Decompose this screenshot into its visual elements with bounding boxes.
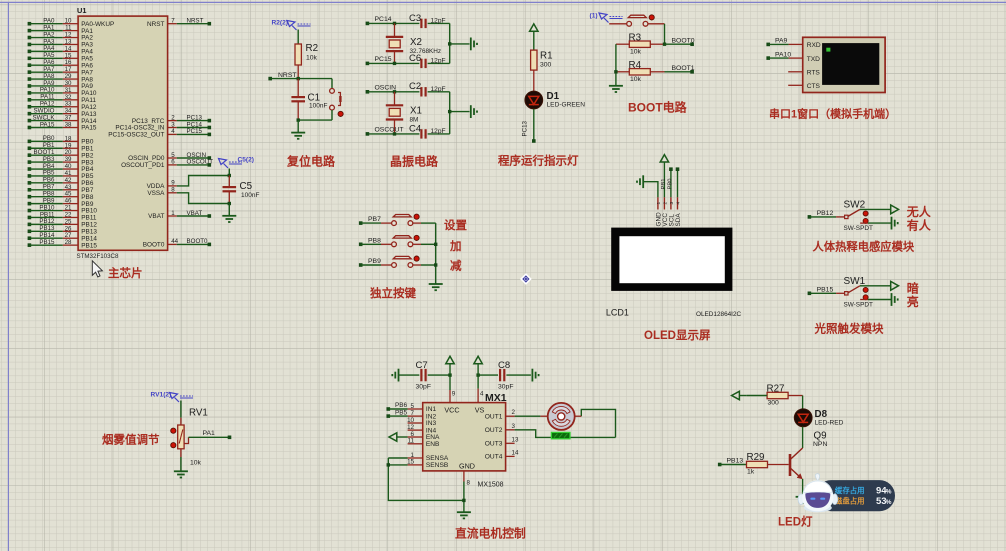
resistor R2 10k	[295, 30, 318, 79]
left pin PA5 pin 15 wire	[28, 52, 94, 62]
left pin PB7 pin 43 wire	[28, 184, 94, 194]
ground OLED (rotated left)	[642, 175, 644, 188]
capacitor C8 30pF	[478, 360, 531, 391]
svg-text:R1: R1	[540, 51, 553, 62]
svg-text:C7: C7	[416, 360, 428, 371]
wire PA9 to RXD	[766, 38, 802, 47]
svg-text:加: 加	[449, 239, 462, 253]
MX1 pin OUT1 (2)	[485, 409, 516, 420]
left pin PB11 pin 22 wire	[28, 211, 97, 221]
svg-text:PB15: PB15	[81, 242, 97, 249]
svg-text:11: 11	[408, 438, 415, 445]
svg-text:CTS: CTS	[807, 83, 821, 90]
push button btn3 wire PB9	[359, 256, 436, 267]
ground crystal (rotated)	[470, 105, 472, 118]
wire SW1 top throw to power	[860, 281, 899, 290]
resistor R27 300	[747, 383, 803, 406]
left pin PA7 pin 17 wire	[28, 66, 94, 76]
ground right of C8 (rotated)	[531, 369, 533, 382]
wire PA10 to TXD	[766, 51, 802, 60]
main chip U1 STM32F103C8 body	[77, 6, 168, 260]
BOOT button	[609, 15, 664, 26]
power arrow VS	[474, 356, 482, 377]
svg-text:8M: 8M	[410, 116, 419, 123]
right pin PC13 (2) wire	[132, 114, 211, 124]
mouse cursor	[92, 261, 102, 277]
label 暗/亮	[907, 280, 919, 309]
ground Q9 (partially hidden)	[796, 496, 810, 498]
svg-text:1: 1	[171, 210, 175, 217]
svg-text:44: 44	[171, 238, 178, 245]
svg-text:PA15: PA15	[40, 121, 55, 128]
ground crystal (rotated)	[470, 38, 472, 51]
motor driver chip MX1 MX1508 body	[423, 392, 507, 489]
svg-text:8: 8	[467, 480, 471, 487]
svg-text:12pF: 12pF	[431, 17, 446, 24]
ground MX1	[457, 511, 471, 513]
push button btn2 wire PB8	[359, 235, 436, 246]
left pin PB10 pin 21 wire	[28, 204, 98, 214]
svg-text:BOOT0: BOOT0	[672, 37, 695, 44]
svg-text:15: 15	[407, 459, 414, 466]
svg-text:R29: R29	[747, 452, 765, 463]
svg-text:PB12: PB12	[817, 210, 834, 217]
right pin PC15 (4) wire	[108, 128, 211, 138]
OLED pins GND VCC SCL SDA	[655, 197, 682, 226]
svg-text:PB7: PB7	[368, 216, 381, 223]
svg-text:10k: 10k	[190, 460, 202, 467]
MX1 pin ENA (6)	[408, 431, 440, 441]
left pin PA15 pin 38 wire	[28, 121, 97, 131]
wire SDA to PB0 terminal	[668, 167, 680, 197]
svg-text:14: 14	[512, 449, 519, 456]
MX1 pin ENB (11)	[408, 438, 440, 448]
svg-text:PB1: PB1	[661, 179, 667, 190]
left pin PB5 pin 41 wire	[28, 170, 94, 180]
left pin PB9 pin 46 wire	[28, 197, 94, 207]
svg-text:ENB: ENB	[426, 441, 440, 448]
MX1 pin OUT4 (14)	[485, 449, 519, 460]
left pin PA10 pin 31 wire	[28, 87, 97, 97]
svg-text:PA9: PA9	[775, 38, 788, 45]
svg-text:STM32F103C8: STM32F103C8	[77, 253, 120, 260]
resistor R4 10k	[616, 60, 665, 83]
svg-text:无人: 无人	[906, 204, 932, 219]
power arrow for OLED VCC	[660, 155, 668, 198]
wire SENSA SENSB loop to ground net	[387, 458, 464, 500]
svg-text:OLED12864I2C: OLED12864I2C	[696, 311, 742, 318]
wire SCL to PB1 terminal	[661, 167, 673, 197]
svg-text:R27: R27	[767, 383, 785, 394]
robot assistant icon	[798, 474, 838, 513]
svg-text:IN3: IN3	[426, 420, 437, 427]
right pin PC14 (3) wire	[115, 121, 211, 131]
svg-text:PA10: PA10	[775, 51, 791, 58]
svg-text:光照触发模块: 光照触发模块	[814, 322, 884, 336]
motor speed indicator (green box)	[551, 432, 570, 438]
svg-text:RV1(2): RV1(2)	[151, 391, 172, 398]
capacitor C1 100nF	[291, 79, 327, 121]
left pin PA1 pin 11 wire	[28, 24, 94, 34]
status widget pill	[816, 480, 895, 511]
svg-text:OUT3: OUT3	[485, 441, 503, 448]
ground reset circuit	[291, 132, 305, 134]
node OSCIN wire	[366, 85, 420, 94]
svg-text:PC14: PC14	[375, 16, 392, 23]
wire-label R2(2)	[272, 19, 311, 30]
switch SW2 SW-SPDT	[808, 199, 873, 232]
LCD1 OLED display body	[606, 228, 742, 318]
svg-text:直流电机控制: 直流电机控制	[455, 527, 526, 541]
svg-text:30pF: 30pF	[416, 384, 432, 391]
svg-text:串口1窗口（模拟手机端）: 串口1窗口（模拟手机端）	[769, 107, 896, 121]
MX1 pin OUT3 (13)	[485, 436, 519, 447]
svg-text:PB5: PB5	[395, 409, 408, 416]
svg-text:1: 1	[656, 202, 662, 205]
svg-text:38: 38	[65, 122, 72, 129]
capacitor C5 100nF	[223, 169, 260, 206]
svg-text:12pF: 12pF	[431, 128, 446, 135]
virtual terminal 串口1 body	[803, 37, 885, 92]
left pin PA4 pin 14 wire	[28, 45, 94, 55]
wire bottom of reset circuit	[297, 118, 333, 132]
wire RV1 bottom to ground	[180, 449, 182, 471]
left pin PB12 pin 25 wire	[28, 218, 98, 228]
right pin VSSA (8) wire	[147, 187, 229, 204]
svg-text:6: 6	[171, 159, 175, 166]
svg-text:10: 10	[407, 417, 414, 424]
node NRST wire	[268, 72, 332, 81]
svg-text:X1: X1	[410, 105, 422, 116]
svg-text:减: 减	[450, 259, 462, 273]
svg-text:PC15: PC15	[375, 56, 392, 63]
right pin NRST (7) wire	[147, 18, 211, 28]
right pin VBAT (1) wire	[148, 210, 211, 220]
svg-text:300: 300	[540, 62, 552, 69]
svg-text:C3: C3	[409, 13, 421, 24]
svg-text:NRST: NRST	[187, 18, 204, 25]
svg-text:烟雾值调节: 烟雾值调节	[102, 433, 160, 447]
svg-text:12pF: 12pF	[431, 86, 446, 93]
resistor R3 10k	[616, 32, 665, 55]
svg-text:PB6: PB6	[395, 402, 408, 409]
left pin PA3 pin 13 wire	[28, 38, 94, 48]
svg-text:TXD: TXD	[807, 56, 820, 63]
svg-text:LED-RED: LED-RED	[815, 419, 844, 426]
svg-text:C2: C2	[409, 81, 421, 92]
wire PB5 to IN2	[387, 409, 408, 418]
LED D1 LED-GREEN	[525, 91, 585, 109]
svg-text:SW-SPDT: SW-SPDT	[844, 225, 873, 232]
svg-text:OSCOUT_PD1: OSCOUT_PD1	[121, 162, 165, 169]
wire right side of crystal	[448, 23, 470, 63]
svg-text:VSSA: VSSA	[147, 190, 165, 197]
svg-text:SW-SPDT: SW-SPDT	[844, 302, 873, 309]
svg-text:VBAT: VBAT	[187, 210, 203, 217]
svg-text:NRST: NRST	[147, 21, 164, 28]
push button btn1 wire PB7	[359, 214, 436, 225]
svg-text:GND: GND	[459, 461, 475, 470]
left pin PB8 pin 45 wire	[28, 191, 94, 201]
svg-text:NRST: NRST	[278, 72, 297, 79]
svg-text:12pF: 12pF	[431, 57, 446, 64]
ground buttons	[429, 283, 443, 285]
resistor R1 300	[531, 50, 553, 91]
wire motor right loop	[581, 409, 615, 437]
svg-text:OSCOUT: OSCOUT	[375, 127, 404, 134]
svg-text:5: 5	[411, 403, 415, 410]
svg-text:U1: U1	[77, 6, 86, 15]
svg-text:VS: VS	[475, 406, 485, 415]
MX1 pin SENSA (1)	[408, 452, 449, 462]
svg-text:3: 3	[669, 202, 675, 205]
svg-text:C8: C8	[498, 360, 510, 371]
svg-text:LED-GREEN: LED-GREEN	[547, 102, 586, 109]
wire R27 to D8	[802, 396, 804, 409]
svg-text:10k: 10k	[630, 76, 642, 83]
svg-text:SDA: SDA	[675, 213, 682, 227]
svg-text:100nF: 100nF	[309, 103, 327, 110]
svg-text:3: 3	[512, 423, 516, 430]
left pin PA9 pin 30 wire	[28, 80, 94, 90]
svg-text:4: 4	[171, 128, 175, 135]
svg-text:OSCOUT: OSCOUT	[187, 159, 214, 166]
ground RV1	[174, 470, 188, 472]
svg-text:IN1: IN1	[426, 406, 437, 413]
node PC15 wire	[366, 56, 420, 65]
svg-text:4: 4	[480, 391, 484, 398]
svg-text:R3: R3	[629, 32, 642, 43]
svg-text:OUT2: OUT2	[485, 427, 503, 434]
motor (DC motor)	[540, 403, 581, 430]
svg-text:VCC: VCC	[444, 406, 459, 415]
svg-text:PC15: PC15	[187, 128, 203, 135]
MX1 pin OUT2 (3)	[485, 423, 516, 434]
svg-text:缓存占用: 缓存占用	[834, 486, 865, 495]
svg-text:主芯片: 主芯片	[108, 266, 143, 280]
CTS pin stub	[788, 84, 803, 86]
left pin PB4 pin 40 wire	[28, 163, 94, 173]
left pin PB13 pin 26 wire	[28, 225, 98, 235]
svg-text:4: 4	[675, 202, 681, 205]
svg-text:BOOT电路: BOOT电路	[628, 100, 688, 115]
svg-text:8: 8	[171, 187, 175, 194]
svg-text:D1: D1	[547, 91, 560, 102]
svg-text:2: 2	[512, 409, 516, 416]
node BOOT1 wire	[665, 65, 695, 74]
left pin PA6 pin 16 wire	[28, 59, 94, 69]
svg-text:BOOT0: BOOT0	[187, 238, 209, 245]
input arrow on ENA	[389, 433, 408, 441]
svg-text:RV1: RV1	[189, 408, 208, 419]
capacitor C2 12pF	[409, 81, 450, 96]
MX1 pin IN4 (12)	[407, 424, 436, 434]
MX1 GND pin 8 wire to ground	[462, 471, 470, 512]
svg-text:RTS: RTS	[807, 70, 821, 77]
svg-text:RXD: RXD	[807, 42, 821, 49]
svg-text:亮: 亮	[907, 294, 919, 309]
svg-text:PB0: PB0	[668, 179, 674, 190]
right pin OSCOUT (6) wire	[121, 159, 213, 169]
svg-text:2: 2	[662, 202, 668, 205]
svg-text:OUT4: OUT4	[485, 454, 503, 461]
left pin PA8 pin 29 wire	[28, 73, 94, 83]
left pin PB15 pin 28 wire	[28, 239, 98, 249]
wire-label (1)	[590, 12, 623, 22]
right pin OSCIN (5) wire	[128, 152, 211, 162]
left pin PB1 pin 19 wire	[28, 142, 94, 152]
svg-text:PB8: PB8	[368, 237, 381, 244]
wire RV1 wiper to PA1 terminal	[184, 430, 231, 443]
svg-text:MX1508: MX1508	[478, 482, 504, 489]
capacitor C3 12pF	[409, 13, 450, 28]
svg-text:X2: X2	[410, 37, 422, 48]
svg-text:100nF: 100nF	[241, 192, 259, 199]
svg-text:设置: 设置	[444, 218, 467, 232]
svg-text:C5(2): C5(2)	[238, 156, 255, 163]
left pin PA0 pin 10 wire	[28, 18, 115, 28]
svg-text:复位电路: 复位电路	[286, 154, 336, 169]
MX1 pin IN2 (7)	[408, 410, 437, 420]
capacitor C6 12pF	[409, 53, 450, 68]
svg-text:10k: 10k	[630, 48, 642, 55]
power arrow for D1	[530, 24, 538, 50]
svg-text:LED灯: LED灯	[778, 515, 813, 529]
svg-text:1k: 1k	[747, 469, 755, 476]
svg-text:磁盘占用: 磁盘占用	[835, 497, 865, 506]
wire OUT1 to motor	[515, 415, 541, 417]
reset button	[330, 79, 344, 121]
crystal X1 8M	[386, 92, 422, 134]
svg-text:PC13: PC13	[521, 120, 528, 136]
RTS pin stub	[788, 71, 803, 73]
svg-text:PB9: PB9	[368, 258, 381, 265]
svg-text:28: 28	[65, 239, 72, 246]
svg-text:PA15: PA15	[81, 125, 97, 132]
ground below C5	[222, 204, 236, 223]
left pin PA2 pin 12 wire	[28, 31, 94, 41]
svg-text:R2(2): R2(2)	[272, 19, 289, 26]
left pin BOOT1 pin 20 wire	[28, 149, 94, 159]
svg-text:30pF: 30pF	[498, 384, 514, 391]
svg-text:%: %	[886, 499, 892, 506]
wire R3/R4 left to ground	[614, 44, 617, 85]
svg-text:7: 7	[171, 18, 175, 25]
svg-text:13: 13	[512, 436, 519, 443]
svg-text:OUT1: OUT1	[485, 413, 503, 420]
wire buttons common to ground	[434, 223, 437, 284]
wire D1 to PC13 terminal	[521, 109, 535, 143]
transistor Q9 NPN	[790, 431, 827, 479]
wire D8 to Q9 collector	[802, 427, 804, 448]
svg-text:10k: 10k	[306, 55, 318, 62]
svg-text:PB13: PB13	[727, 458, 744, 465]
origin marker (blue diamond)	[521, 274, 531, 284]
input arrow to R27	[732, 391, 747, 399]
wire GND pin to ground (left)	[644, 182, 658, 198]
svg-text:VBAT: VBAT	[148, 213, 164, 220]
svg-text:人体热释电感应模块: 人体热释电感应模块	[813, 240, 915, 254]
svg-text:BOOT0: BOOT0	[143, 242, 165, 249]
svg-text:(1): (1)	[590, 12, 598, 19]
svg-text:OLED显示屏: OLED显示屏	[644, 329, 711, 342]
left pin PB6 pin 42 wire	[28, 177, 94, 187]
node PC14 wire	[366, 16, 420, 25]
svg-text:MX1: MX1	[485, 392, 507, 404]
left pin PA11 pin 32 wire	[28, 94, 97, 104]
MX1 pin IN1 (5)	[408, 403, 437, 413]
MX1 pin IN3 (10)	[407, 417, 436, 427]
svg-text:BOOT1: BOOT1	[672, 65, 695, 72]
left pin PB14 pin 27 wire	[28, 232, 98, 242]
wire VCC pin 9	[450, 375, 456, 403]
wire SW2 bottom throw to ground	[860, 217, 898, 230]
wire SW1 bottom throw to ground	[860, 293, 898, 306]
right pin VDDA (9) wire	[147, 176, 230, 191]
label 无人/有人	[906, 204, 932, 233]
svg-text:C6: C6	[409, 53, 421, 64]
right pin BOOT0 (44) wire	[143, 238, 211, 248]
wire right side of crystal	[448, 92, 470, 134]
wire SW2 top throw to power	[860, 205, 899, 214]
MX1 pin SENSB (15)	[407, 459, 449, 469]
svg-text:%: %	[886, 489, 892, 496]
svg-text:R2: R2	[306, 43, 319, 54]
svg-text:300: 300	[768, 400, 780, 407]
svg-text:PA1: PA1	[203, 430, 216, 437]
svg-text:LCD1: LCD1	[606, 308, 629, 318]
left pin SWDIO pin 34 wire	[28, 107, 97, 117]
svg-text:C4: C4	[409, 123, 421, 134]
ground BOOT circuit	[609, 85, 623, 87]
left pin PA12 pin 33 wire	[28, 101, 97, 111]
wire OUT2 to motor loop	[515, 430, 616, 438]
svg-text:暗: 暗	[907, 280, 919, 295]
node BOOT0 wire	[663, 37, 695, 46]
svg-text:R4: R4	[629, 60, 642, 71]
node OSCOUT wire	[366, 127, 420, 136]
crystal X2 32.768KHz	[386, 23, 441, 63]
potentiometer RV1 10k	[171, 401, 208, 467]
left pin PB0 pin 18 wire	[28, 135, 94, 145]
wire-label C5(2)	[219, 156, 255, 168]
svg-text:PC15-OSC32_OUT: PC15-OSC32_OUT	[108, 132, 164, 139]
wire-label RV1(2)	[151, 391, 194, 402]
capacitor C7 30pF	[399, 360, 450, 391]
wire Q9 emitter to ground	[802, 479, 804, 497]
svg-text:PB15: PB15	[39, 239, 55, 246]
wire button to BOOT0 net	[664, 24, 666, 44]
wire PB13 to R29	[718, 458, 747, 467]
svg-text:晶振电路: 晶振电路	[390, 154, 439, 169]
LED D8 LED-RED	[794, 409, 843, 427]
ground left of C7 (rotated)	[398, 369, 400, 382]
wire VS pin 4	[478, 375, 484, 403]
left pin SWCLK pin 37 wire	[28, 114, 97, 124]
svg-text:PB15: PB15	[817, 286, 834, 293]
resistor R29 1k	[747, 452, 789, 476]
svg-text:9: 9	[452, 391, 456, 398]
svg-text:独立按键: 独立按键	[370, 286, 416, 300]
svg-text:有人: 有人	[907, 218, 932, 233]
svg-text:SENSB: SENSB	[426, 462, 449, 469]
wire PB6 to IN1	[387, 402, 408, 411]
switch SW1 SW-SPDT	[808, 276, 873, 309]
svg-text:程序运行指示灯: 程序运行指示灯	[498, 154, 579, 168]
power arrow VCC	[446, 356, 454, 377]
capacitor C4 12pF	[409, 123, 450, 138]
svg-text:C5: C5	[240, 181, 253, 192]
